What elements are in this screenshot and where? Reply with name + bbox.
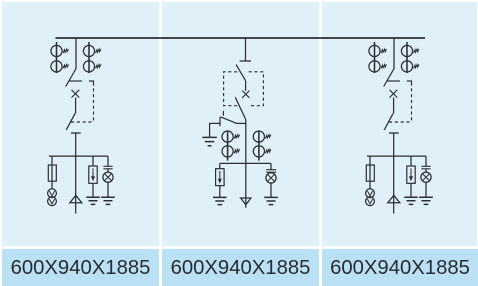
wire: arrester branch panel 2 bbox=[219, 163, 221, 168]
dimension label panel 2 bbox=[162, 249, 319, 286]
voltage transformer TV1 winding 2 bbox=[48, 197, 57, 206]
withdrawable unit dashed box panel 3 bbox=[407, 81, 412, 86]
cable termination triangle panel 3 bbox=[388, 195, 400, 203]
wire: arrester to earth panel 3 bbox=[410, 183, 412, 197]
wire: breaker stub panel 2 bbox=[245, 81, 247, 91]
wire: fuse branch panel 1 bbox=[51, 156, 53, 189]
disconnect blade (lower) panel 1 bbox=[66, 113, 75, 130]
drawout contact T-bar panel 1 bbox=[71, 132, 81, 134]
voltage transformer TV3 winding 2 bbox=[366, 197, 375, 206]
current transformer TA1d bbox=[83, 61, 101, 72]
indicator lamp HL2 bbox=[266, 173, 276, 183]
current transformer TA2a bbox=[222, 131, 240, 142]
current transformer TA3c bbox=[401, 45, 419, 56]
cable termination triangle (incoming) panel 2 bbox=[241, 198, 251, 205]
wire: CT string A conductor panel 3 bbox=[374, 42, 376, 73]
indicator lamp HL3 bbox=[421, 172, 431, 182]
wire: bus drop panel 3 bbox=[393, 38, 395, 69]
wire: main feeder drop panel 1 bbox=[75, 133, 77, 214]
capacitor divider plates panel 1 bbox=[103, 166, 112, 169]
wire: lamp to earth panel 2 bbox=[270, 183, 272, 197]
wire: arrester to earth panel 2 bbox=[219, 186, 221, 197]
disconnect blade (lower) panel 2 bbox=[235, 97, 246, 120]
earthing switch fixed contact tick panel 2 bbox=[219, 117, 221, 126]
fixed contact tick panel 1 bbox=[69, 80, 82, 82]
wire: lower distribution bus panel 2 bbox=[220, 162, 271, 164]
earthing switch blade QS2 bbox=[220, 117, 236, 123]
ground (lamp) panel 1 bbox=[101, 197, 115, 204]
fuse FU3 bbox=[366, 165, 374, 181]
withdrawable unit dashed box panel 1 bbox=[89, 81, 94, 86]
disconnect blade (upper) panel 1 bbox=[66, 69, 76, 87]
wire: earthing switch link panel 2 bbox=[236, 122, 246, 124]
voltage transformer TV3 winding 1 bbox=[366, 189, 375, 198]
cabinet panel 2 background bbox=[162, 2, 319, 246]
wire: lower distribution bus panel 1 bbox=[49, 155, 108, 157]
wire: arrester branch panel 1 bbox=[92, 156, 94, 166]
ground (arrester) panel 1 bbox=[86, 197, 100, 204]
wire: lower distribution bus panel 3 bbox=[367, 155, 426, 157]
ground (arrester) panel 2 bbox=[213, 197, 227, 204]
disconnect blade (upper) panel 2 bbox=[236, 65, 246, 81]
wire: bus drop panel 1 bbox=[75, 38, 77, 69]
current transformer TA2c bbox=[253, 131, 271, 142]
wire: lamp to earth panel 1 bbox=[107, 182, 109, 197]
drawout contact T-bar (top) panel 2 bbox=[240, 60, 251, 62]
surge arrester F1 bbox=[89, 166, 97, 183]
wire: capacitor to lamp panel 2 bbox=[270, 171, 272, 174]
wire: lamp to earth panel 3 bbox=[425, 182, 427, 197]
cabinet panel 3 background bbox=[322, 2, 477, 246]
current transformer TA1b bbox=[51, 61, 69, 72]
cable termination triangle panel 1 bbox=[70, 195, 82, 203]
current transformer TA3a bbox=[369, 45, 387, 56]
wire: breaker stub panel 3 bbox=[393, 98, 395, 114]
wire: CT string B conductor panel 2 bbox=[258, 131, 260, 161]
wire: CT string B conductor panel 1 bbox=[88, 42, 90, 73]
circuit breaker QF3 (X symbol) bbox=[390, 90, 398, 98]
drawout rail dash panel 2 bbox=[222, 111, 224, 116]
indicator lamp HL1 bbox=[103, 172, 113, 182]
wire: CT string A conductor panel 1 bbox=[56, 42, 58, 73]
drawout contact T-bar panel 3 bbox=[389, 132, 399, 134]
wire: bus drop panel 2 bbox=[245, 38, 247, 61]
current transformer TA1c bbox=[83, 45, 101, 56]
withdrawable unit dashed box panel 2 bbox=[224, 72, 264, 106]
disconnect blade (upper) panel 3 bbox=[384, 69, 394, 87]
surge arrester F2 bbox=[216, 169, 225, 186]
wire: CT string A conductor panel 2 bbox=[227, 131, 229, 161]
wire: breaker stub panel 1 bbox=[75, 98, 77, 114]
wire: capacitor to lamp panel 1 bbox=[107, 169, 109, 172]
wire: CT string B conductor panel 3 bbox=[406, 42, 408, 73]
ground (earthing switch) panel 2 bbox=[202, 137, 217, 145]
current transformer TA3d bbox=[401, 61, 419, 72]
wire: capacitor to lamp panel 3 bbox=[425, 169, 427, 172]
wire: live-line indicator branch panel 3 bbox=[425, 156, 427, 166]
wire: earthing switch to earth panel 2 bbox=[210, 123, 220, 137]
wire: main feeder drop panel 3 bbox=[393, 133, 395, 214]
capacitor divider plates panel 2 bbox=[266, 170, 276, 173]
current transformer TA2b bbox=[222, 146, 240, 157]
wire: fuse branch panel 3 bbox=[369, 156, 371, 189]
dimension label panel 3 bbox=[322, 249, 478, 286]
main busbar bbox=[56, 37, 426, 39]
dimension label panel 1 bbox=[2, 249, 159, 286]
wire: main drop to lower bus panel 2 bbox=[245, 120, 247, 208]
ground (lamp) panel 2 bbox=[264, 197, 278, 204]
capacitor divider plates panel 3 bbox=[421, 166, 430, 169]
wire: arrester to earth panel 1 bbox=[92, 183, 94, 197]
disconnect blade (lower) panel 3 bbox=[384, 113, 393, 130]
fixed contact tick panel 3 bbox=[387, 80, 400, 82]
wire: arrester branch panel 3 bbox=[410, 156, 412, 166]
current transformer TA2d bbox=[253, 146, 271, 157]
wire: live-line indicator branch panel 2 bbox=[270, 163, 272, 169]
wire: live-line indicator branch panel 1 bbox=[107, 156, 109, 166]
circuit breaker QF1 (X symbol) bbox=[72, 90, 80, 98]
ground (lamp) panel 3 bbox=[419, 197, 433, 204]
ground (arrester) panel 3 bbox=[404, 197, 418, 204]
voltage transformer TV1 winding 1 bbox=[48, 189, 57, 198]
current transformer TA1a bbox=[51, 45, 69, 56]
surge arrester F3 bbox=[407, 166, 415, 183]
current transformer TA3b bbox=[369, 61, 387, 72]
cabinet panel 1 background bbox=[2, 2, 159, 246]
fuse FU1 bbox=[48, 165, 56, 181]
circuit breaker QF2 (X symbol) bbox=[242, 91, 249, 98]
